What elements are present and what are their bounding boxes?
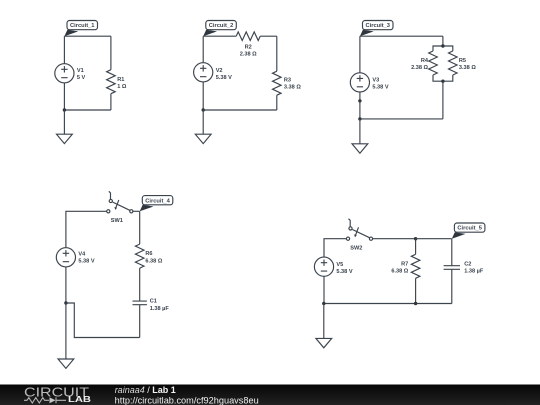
wire right branch lower (R1 to bottom rail): [110, 94, 112, 110]
wire right branch lower (parallel to bottom rail): [442, 81, 444, 119]
resistor R6 6.38 Ohm: [135, 244, 162, 268]
svg-text:SW1: SW1: [111, 218, 123, 224]
wire R7 branch lower: [415, 278, 417, 303]
wire left branch lower (V4 - to junction): [65, 267, 67, 303]
node Circuit_3 label flag: [360, 21, 393, 37]
wire left branch lower (V1 - to bottom rail): [63, 83, 65, 110]
voltage source V4 5.38 V: [56, 248, 95, 267]
svg-text:3.38 Ω: 3.38 Ω: [284, 85, 301, 91]
svg-text:Circuit_4: Circuit_4: [145, 198, 170, 204]
junction dot parallel bottom: [441, 80, 444, 83]
wire left branch upper (node to V2 +): [202, 36, 204, 63]
wire bottom rail circuit 1: [64, 109, 111, 111]
resistor R1 1 Ohm: [107, 70, 127, 94]
svg-text:5.38 V: 5.38 V: [216, 75, 232, 81]
junction dot circuit 1 bottom-left: [63, 108, 66, 111]
svg-text:5.38 V: 5.38 V: [78, 259, 94, 265]
wire left branch upper (node to V3 +): [359, 36, 361, 72]
footer bar: [0, 385, 540, 405]
wire top rail circuit 1: [64, 35, 111, 37]
ground circuit 1: [57, 134, 73, 143]
svg-text:R7: R7: [401, 262, 408, 268]
voltage source V2 5.38 V: [194, 63, 233, 82]
wire bottom rail circuit 5: [324, 303, 452, 305]
wire bottom rail circuit 2: [203, 109, 277, 111]
node Circuit_1 label flag: [64, 21, 97, 37]
junction dot circuit 4: [64, 301, 67, 304]
wire C2 branch lower: [451, 269, 453, 303]
svg-text:C1: C1: [150, 298, 157, 304]
node Circuit_4 label flag: [140, 196, 173, 212]
voltage source V5 5.38 V: [314, 257, 352, 276]
svg-text:http://circuitlab.com/cf92hgua: http://circuitlab.com/cf92hguavs8eu: [115, 395, 259, 405]
wire ground stem circuit 2: [202, 110, 204, 134]
wire SW2 to R7 node: [372, 238, 415, 240]
wire top rail right (R2 to corner): [260, 35, 277, 37]
svg-text:5.38 V: 5.38 V: [336, 269, 352, 275]
wire left branch lower (V5 - to bottom rail): [323, 276, 325, 303]
node Circuit_2 label flag: [203, 21, 236, 37]
wire right branch upper (top rail to R1): [110, 36, 112, 69]
wire R7 branch upper: [415, 239, 417, 255]
svg-text:V2: V2: [216, 68, 223, 74]
svg-text:1.38 µF: 1.38 µF: [464, 269, 484, 275]
wire right branch upper (node to R6): [139, 211, 141, 244]
svg-text:Circuit_1: Circuit_1: [70, 23, 95, 29]
svg-text:R5: R5: [459, 58, 466, 64]
svg-text:5 V: 5 V: [77, 75, 86, 81]
resistor R3 3.38 Ohm: [273, 71, 302, 95]
svg-text:R6: R6: [145, 251, 152, 257]
svg-text:1.38 µF: 1.38 µF: [150, 306, 170, 312]
wire right branch mid (R6 to C1): [139, 268, 141, 301]
voltage source V1 5 V: [55, 64, 86, 83]
junction dot parallel top: [441, 44, 444, 47]
svg-text:V4: V4: [78, 252, 86, 258]
resistor R7 6.38 Ohm: [391, 254, 420, 278]
svg-text:R4: R4: [421, 58, 429, 64]
wire right branch (top rail to parallel top bar): [442, 36, 444, 46]
resistor R4 2.38 Ohm: [411, 51, 437, 75]
ground circuit 4: [58, 359, 74, 368]
wire SW1 to node: [133, 210, 140, 212]
svg-text:Circuit_3: Circuit_3: [366, 23, 391, 29]
wire bottom rail circuit 3: [360, 118, 443, 120]
wire right branch upper (corner to R3): [276, 36, 278, 71]
resistor R2 2.38 Ohm: [236, 32, 260, 57]
resistor R5 3.38 Ohm: [449, 51, 477, 75]
ground circuit 2: [195, 134, 211, 143]
junction dot circuit 3 bottom-left: [358, 117, 361, 120]
capacitor C2 1.38 uF: [444, 262, 484, 275]
svg-text:R1: R1: [117, 77, 124, 83]
svg-text:R2: R2: [245, 44, 252, 50]
svg-text:1 Ω: 1 Ω: [117, 84, 127, 90]
junction dot circuit 2 bottom-left: [202, 108, 205, 111]
wire ground stem circuit 1: [63, 110, 65, 134]
wire left branch lower (V2 - to bottom rail): [202, 82, 204, 110]
wire left branch lower (joint to bottom rail): [359, 101, 361, 119]
junction dot circuit 5 bottom-left: [322, 302, 325, 305]
ground circuit 3: [352, 144, 368, 153]
node Circuit_5 label flag: [452, 223, 485, 239]
svg-text:C2: C2: [464, 262, 471, 268]
junction dot left branch joint: [358, 99, 361, 102]
wire parallel top bar: [433, 46, 453, 51]
wire top rail left (node to R2): [203, 35, 236, 37]
svg-text:3.38 Ω: 3.38 Ω: [459, 65, 476, 71]
svg-text:2.38 Ω: 2.38 Ω: [240, 51, 257, 57]
svg-text:rainaa4 / Lab 1: rainaa4 / Lab 1: [115, 385, 176, 395]
wire top rail left (corner to SW2): [324, 239, 346, 257]
svg-text:R3: R3: [284, 78, 291, 84]
svg-text:Circuit_5: Circuit_5: [457, 226, 482, 232]
svg-text:2.38 Ω: 2.38 Ω: [411, 65, 428, 71]
svg-text:V5: V5: [336, 262, 343, 268]
wire bottom return (C1 bottom to junction): [66, 303, 140, 338]
wire ground stem circuit 5: [323, 304, 325, 339]
svg-text:V1: V1: [77, 68, 84, 74]
wire left branch upper (node to V1 +): [63, 36, 65, 64]
junction dot R7 bottom: [414, 302, 417, 305]
svg-text:6.38 Ω: 6.38 Ω: [145, 259, 162, 265]
switch SW1: [107, 191, 133, 224]
wire left branch mid (V3 - to joint): [359, 92, 361, 101]
wire ground stem circuit 3: [359, 119, 361, 144]
wire ground stem circuit 4: [65, 303, 67, 359]
wire right branch lower (C1 to bottom corner): [139, 305, 141, 338]
wire C2 branch upper: [451, 239, 453, 266]
wire top rail right (R7 node to C2 node): [416, 238, 452, 240]
svg-text:SW2: SW2: [350, 245, 362, 251]
voltage source V3 5.38 V: [350, 73, 389, 92]
CircuitLab logo schematic squiggle (resistor + diode): [24, 397, 66, 403]
ground circuit 5: [316, 338, 332, 347]
wire top rail left (corner to SW1): [66, 211, 107, 247]
svg-text:V3: V3: [372, 78, 379, 84]
capacitor C1 1.38 uF: [133, 298, 170, 312]
svg-text:LAB: LAB: [68, 395, 91, 404]
switch SW2: [346, 219, 372, 252]
wire top rail circuit 3: [360, 35, 443, 37]
svg-text:6.38 Ω: 6.38 Ω: [391, 269, 408, 275]
wire right branch lower (R3 to bottom rail): [276, 95, 278, 110]
junction dot R7 top: [414, 237, 417, 240]
wire parallel bottom bar: [433, 75, 453, 81]
svg-text:5.38 V: 5.38 V: [372, 85, 388, 91]
svg-text:Circuit_2: Circuit_2: [209, 23, 234, 29]
